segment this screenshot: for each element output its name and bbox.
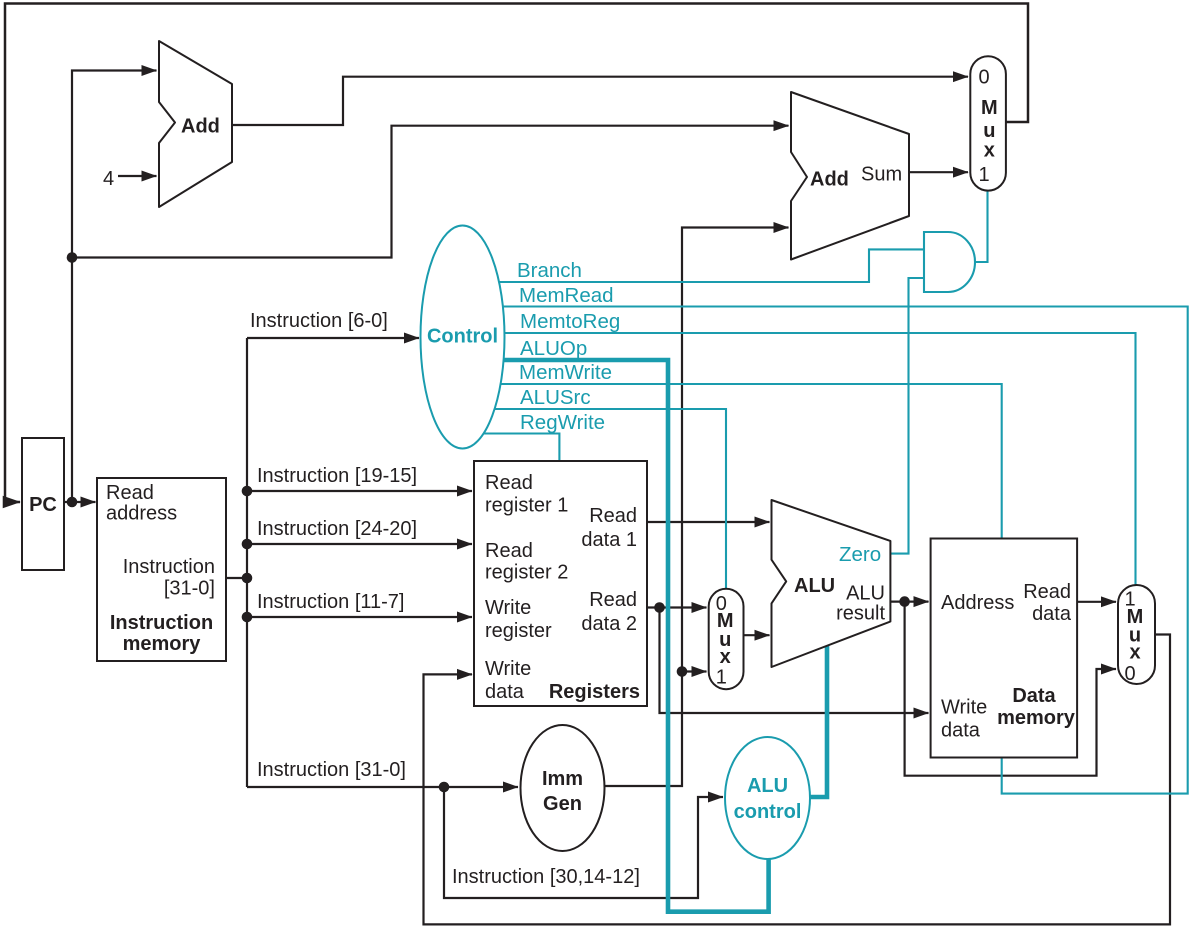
svg-text:data: data (941, 720, 981, 742)
wire Instruction [19-15] to read register 1 (247, 490, 472, 492)
Imm Gen ellipse (521, 725, 605, 851)
wire mux MemtoReg output feedback to registers write data (424, 635, 1171, 925)
svg-text:MemRead: MemRead (519, 284, 614, 307)
svg-text:0: 0 (1124, 663, 1135, 685)
adder PC+4 (159, 41, 232, 207)
wire AND gate output to mux PCSrc select (975, 191, 988, 263)
labels mux MemtoReg (1124, 589, 1143, 686)
svg-text:4: 4 (103, 168, 114, 190)
wire Instruction [6-0] to Control (247, 337, 419, 339)
mux MemtoReg (1118, 585, 1155, 684)
labels data memory (941, 581, 1076, 742)
wire PC value riser up to Add PC+4 (72, 71, 157, 503)
svg-text:register: register (485, 620, 552, 642)
svg-text:Read: Read (589, 505, 637, 527)
junction instruction 31-0 immgen (439, 782, 450, 793)
label ALU result (836, 583, 885, 625)
svg-text:data: data (485, 681, 525, 703)
svg-text:memory: memory (997, 707, 1076, 729)
wire Instruction [30,14-12] to ALU control (444, 787, 723, 898)
junction instruction bus fetch (242, 573, 253, 584)
wire ALUOp control signal to ALU control (thick) (462, 360, 769, 912)
wire Imm Gen output up to branch adder bottom input (605, 228, 789, 787)
svg-text:ALU: ALU (747, 775, 788, 797)
wire read data 1 to ALU input (647, 521, 770, 523)
svg-text:Instruction [24-20]: Instruction [24-20] (257, 518, 417, 540)
labels mux PCSrc (978, 67, 997, 187)
wire constant 4 into Add PC+4 (118, 175, 157, 177)
mux PCSrc (970, 56, 1006, 190)
svg-text:Branch: Branch (517, 259, 582, 282)
wire data memory read data to mux MemtoReg input 1 (1077, 601, 1116, 603)
junction PC to adders (67, 252, 78, 263)
svg-text:1: 1 (978, 164, 989, 186)
svg-text:MemWrite: MemWrite (519, 361, 612, 384)
svg-text:register 2: register 2 (485, 562, 568, 584)
svg-text:data 1: data 1 (581, 529, 637, 551)
svg-text:ALUOp: ALUOp (520, 337, 587, 360)
svg-text:Zero: Zero (839, 543, 881, 566)
svg-text:1: 1 (716, 667, 727, 689)
data memory box (931, 539, 1078, 758)
wire MemWrite control signal to data memory (462, 384, 1002, 539)
svg-text:control: control (734, 801, 802, 823)
svg-text:x: x (984, 140, 995, 162)
wire ALUSrc control signal to mux ALUSrc select (462, 409, 726, 589)
wire instruction memory output to instruction bus (226, 577, 247, 579)
svg-text:Read: Read (485, 472, 533, 494)
wire ALU result down to mux MemtoReg input 0 (905, 602, 1116, 776)
junction instruction bus 19-15 (242, 486, 253, 497)
wire mux PCSrc output feedback to PC (top border loop) (5, 4, 1028, 503)
svg-text:memory: memory (123, 633, 202, 655)
wire immediate to mux ALUSrc input 1 (682, 670, 707, 672)
svg-text:Instruction: Instruction (123, 556, 215, 578)
instruction memory box (97, 478, 226, 661)
wire PC output to instruction memory read address (64, 501, 96, 503)
svg-text:Add: Add (810, 169, 849, 191)
svg-text:Instruction [6-0]: Instruction [6-0] (250, 310, 388, 332)
wire RegWrite control signal to registers (462, 434, 559, 462)
svg-text:[31-0]: [31-0] (164, 578, 215, 600)
ALU main (772, 500, 891, 667)
AND gate branch (924, 232, 975, 292)
labels registers (485, 472, 640, 703)
wire read data 2 down to data memory write data (660, 608, 929, 714)
svg-text:0: 0 (978, 67, 989, 89)
svg-text:Instruction [19-15]: Instruction [19-15] (257, 465, 417, 487)
wire Instruction [31-0] to Imm Gen (247, 786, 518, 788)
PC register (22, 438, 64, 570)
junction immediate mux (677, 666, 688, 677)
wire instruction bus vertical (246, 338, 248, 787)
svg-text:Write: Write (485, 597, 531, 619)
svg-text:Write: Write (485, 658, 531, 680)
svg-text:Control: Control (427, 326, 498, 348)
svg-text:data 2: data 2 (581, 613, 637, 635)
svg-text:Instruction: Instruction (110, 612, 213, 634)
svg-text:Read: Read (106, 482, 154, 504)
svg-text:ALU: ALU (794, 575, 835, 597)
junction read data 2 (654, 602, 665, 613)
svg-text:address: address (106, 503, 177, 525)
wire read data 2 to mux ALUSrc input 0 (647, 606, 707, 608)
svg-text:Data: Data (1012, 685, 1056, 707)
wire ALU result to data memory address (890, 600, 928, 602)
Control unit ellipse (421, 226, 505, 449)
svg-text:x: x (720, 646, 731, 668)
svg-text:x: x (1129, 642, 1140, 664)
svg-text:Write: Write (941, 697, 987, 719)
wire ALU Zero output to AND gate (890, 278, 924, 554)
wire PC value to branch adder top input (72, 126, 789, 258)
svg-text:data: data (1032, 603, 1072, 625)
svg-text:PC: PC (29, 494, 57, 516)
label Imm Gen (542, 768, 583, 815)
svg-text:Instruction [11-7]: Instruction [11-7] (257, 591, 404, 613)
svg-text:Read: Read (589, 589, 637, 611)
label ALU control (734, 775, 802, 823)
svg-text:ALUSrc: ALUSrc (520, 386, 591, 409)
labels mux ALUSrc (716, 593, 734, 689)
wire Branch control signal to AND gate (462, 249, 924, 282)
wire MemRead control signal to data memory (462, 307, 1188, 794)
svg-text:M: M (981, 97, 998, 119)
ALU control ellipse (725, 737, 810, 859)
adder branch target (791, 92, 909, 260)
svg-text:Add: Add (181, 116, 220, 138)
junction instruction bus 11-7 (242, 612, 253, 623)
wire branch adder Sum output to mux PCSrc input 1 (909, 171, 968, 173)
svg-text:Imm: Imm (542, 768, 583, 790)
svg-text:Instruction [30,14-12]: Instruction [30,14-12] (452, 866, 640, 888)
svg-text:Registers: Registers (549, 681, 640, 703)
svg-text:Sum: Sum (861, 164, 902, 186)
junction ALU result (899, 596, 910, 607)
svg-text:Read: Read (485, 540, 533, 562)
labels instruction memory (106, 482, 215, 655)
svg-text:Instruction [31-0]: Instruction [31-0] (257, 759, 406, 781)
wire Instruction [11-7] to write register (247, 616, 472, 618)
svg-text:MemtoReg: MemtoReg (520, 310, 620, 333)
svg-text:RegWrite: RegWrite (520, 411, 605, 434)
svg-text:Address: Address (941, 592, 1014, 614)
svg-text:Read: Read (1023, 581, 1071, 603)
wire mux ALUSrc output to ALU input (744, 634, 770, 636)
wire Add PC+4 output to mux PCSrc input 0 (232, 77, 968, 125)
mux ALUSrc (709, 589, 744, 689)
svg-text:register 1: register 1 (485, 495, 568, 517)
junction PC output (67, 497, 78, 508)
wire ALU control output to ALU select (thick) (810, 643, 827, 797)
svg-text:Gen: Gen (543, 793, 582, 815)
junction instruction bus 24-20 (242, 539, 253, 550)
registers file box (474, 461, 647, 706)
svg-text:result: result (836, 603, 885, 625)
wire MemtoReg control signal to mux MemtoReg select (462, 333, 1136, 585)
wire Instruction [24-20] to read register 2 (247, 543, 472, 545)
svg-text:ALU: ALU (846, 583, 885, 605)
